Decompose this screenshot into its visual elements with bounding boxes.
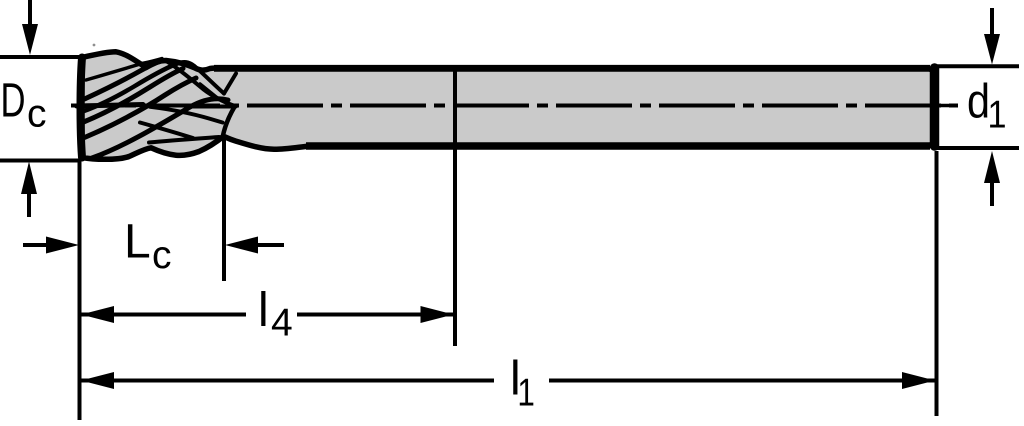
svg-text:c: c [152,234,172,277]
svg-text:D: D [1,75,26,128]
svg-text:l: l [258,284,269,337]
svg-text:c: c [27,93,47,136]
svg-text:1: 1 [988,94,1007,137]
svg-text:L: L [124,216,151,269]
svg-text:1: 1 [517,372,535,415]
svg-text:4: 4 [271,302,293,345]
